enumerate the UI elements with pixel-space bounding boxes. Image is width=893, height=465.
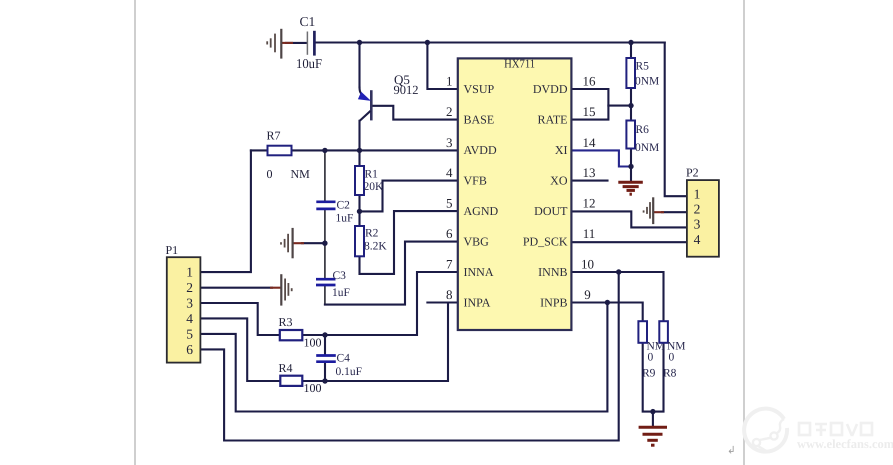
wire R1 top lead bbox=[358, 150, 360, 166]
svg-text:3: 3 bbox=[694, 217, 701, 232]
svg-text:11: 11 bbox=[583, 226, 596, 241]
svg-text:R5: R5 bbox=[636, 61, 650, 73]
svg-text:INPB: INPB bbox=[540, 295, 567, 309]
wire top-left ground to C1 bbox=[286, 42, 307, 44]
resistor R3 100 bbox=[279, 315, 322, 350]
svg-text:15: 15 bbox=[583, 104, 596, 119]
connector P2 bbox=[686, 166, 719, 257]
svg-text:5: 5 bbox=[446, 196, 453, 211]
svg-text:6: 6 bbox=[186, 342, 193, 357]
node junction R9-R8 bottom bbox=[650, 409, 655, 414]
svg-text:↲: ↲ bbox=[727, 446, 736, 457]
ground (sideways) at C1 bbox=[267, 29, 293, 59]
svg-text:4: 4 bbox=[446, 165, 453, 180]
svg-text:INNB: INNB bbox=[538, 265, 567, 279]
watermark url text bbox=[797, 437, 893, 451]
svg-text:1: 1 bbox=[186, 265, 193, 280]
svg-text:3: 3 bbox=[446, 135, 453, 150]
wire INNA pin 7 route down to R3 node bbox=[325, 272, 458, 335]
wire C2 riser from AVDD row to C2 top plate bbox=[324, 150, 326, 200]
svg-text:1uF: 1uF bbox=[332, 287, 350, 299]
wire XO pin13 stub bbox=[571, 180, 607, 182]
wire P1 pin2 to ground bbox=[201, 287, 272, 289]
wire C4 bottom lead bbox=[324, 363, 326, 381]
wire stem to bottom earth ground bbox=[652, 412, 654, 425]
wire XI pin14 route to R6 bottom node bbox=[571, 150, 631, 166]
connector P1 bbox=[166, 243, 201, 363]
svg-text:R1: R1 bbox=[365, 169, 379, 181]
svg-text:C2: C2 bbox=[337, 200, 351, 212]
capacitor C2 1uF bbox=[316, 200, 353, 225]
wire VCC top rail from C1 to right corner bbox=[315, 41, 665, 43]
svg-text:R3: R3 bbox=[279, 315, 293, 329]
node junction ground-C2-C3 bbox=[322, 241, 327, 246]
svg-text:AGND: AGND bbox=[464, 204, 499, 218]
transistor Q2 Q5 9012 bbox=[358, 72, 419, 121]
ground (earth) below R6 bbox=[618, 182, 643, 194]
svg-text:3: 3 bbox=[186, 296, 193, 311]
wire INPB rail from P1 pin5 to pin 9 drop bbox=[201, 303, 607, 412]
node junction INNB row bbox=[616, 269, 621, 274]
wire Q5 collector down to AVDD row bbox=[358, 121, 360, 151]
capacitor C4 0.1uF bbox=[316, 353, 362, 379]
wire PD_SCK pin11 to P2 pin4 bbox=[571, 241, 687, 243]
wire AGND pin 5 jog down to R2 bottom bbox=[360, 211, 458, 274]
svg-text:C1: C1 bbox=[300, 14, 316, 29]
wire C4 top lead bbox=[324, 335, 326, 354]
svg-text:C4: C4 bbox=[337, 353, 351, 365]
resistor R9 0 NM bbox=[638, 321, 665, 379]
node junction DVDD/RATE tap on R5-R6 bbox=[628, 103, 633, 108]
svg-text:DVDD: DVDD bbox=[533, 82, 568, 96]
svg-text:R9: R9 bbox=[642, 368, 656, 380]
wire R5 bottom to R6 top link bbox=[630, 88, 632, 121]
svg-text:R4: R4 bbox=[279, 361, 293, 375]
paragraph return mark bbox=[727, 446, 736, 457]
svg-text:100: 100 bbox=[304, 336, 322, 350]
svg-text:0: 0 bbox=[267, 167, 273, 181]
node junction XI on R6 bottom bbox=[628, 164, 633, 169]
svg-text:R2: R2 bbox=[365, 228, 379, 240]
left table border line bbox=[134, 0, 136, 465]
svg-text:0: 0 bbox=[648, 352, 654, 364]
svg-text:2: 2 bbox=[186, 280, 193, 295]
svg-text:100: 100 bbox=[304, 381, 322, 395]
wire INNB rail from P1 pin6 to pin 10 drop bbox=[201, 272, 619, 441]
svg-text:4: 4 bbox=[186, 311, 193, 326]
node junction rail-VSUP bbox=[425, 40, 430, 45]
node junction R3-C4-INNA bbox=[322, 332, 327, 337]
svg-text:P2: P2 bbox=[686, 166, 699, 180]
svg-text:AVDD: AVDD bbox=[464, 143, 497, 157]
wire Q5 base to pin 2 bbox=[372, 106, 458, 120]
svg-text:1: 1 bbox=[694, 186, 701, 201]
node junction rail-R5 bbox=[628, 40, 633, 45]
right table border line bbox=[743, 0, 745, 465]
node junction rail-emitter bbox=[357, 40, 362, 45]
wire VCC rail corner down to P2 pin1 bbox=[665, 43, 687, 197]
svg-text:XO: XO bbox=[550, 173, 568, 187]
ground (sideways) at P1 pin2 bbox=[270, 274, 292, 305]
svg-text:2: 2 bbox=[694, 202, 701, 217]
ground (earth) below R9 R8 bbox=[639, 427, 667, 445]
wire C3 bottom down to VBG return bbox=[324, 286, 326, 305]
wire DOUT pin12 route to P2 pin3 bbox=[571, 211, 687, 227]
resistor R8 0 NM bbox=[659, 321, 685, 379]
svg-text:DOUT: DOUT bbox=[534, 204, 568, 218]
node junction INPB row bbox=[605, 300, 610, 305]
svg-text:www.elecfans.com: www.elecfans.com bbox=[797, 437, 893, 451]
svg-text:16: 16 bbox=[583, 74, 597, 89]
node junction AVDD-collector-R1 bbox=[357, 148, 362, 153]
wire INPA route from R4 node up to pin 8 bbox=[325, 303, 448, 382]
wire R4 right lead to node bbox=[302, 380, 325, 382]
wire R2 top lead bbox=[358, 211, 360, 226]
wire R5 top lead from rail bbox=[630, 43, 632, 59]
wire R3 left lead from P1 pin3 drop bbox=[201, 303, 280, 335]
svg-text:20K: 20K bbox=[364, 181, 385, 193]
resistor R2 8.2K bbox=[355, 226, 387, 256]
watermark logo circle bbox=[744, 409, 787, 452]
wire VFB link from node up to pin 4 bbox=[360, 181, 458, 212]
svg-text:9012: 9012 bbox=[394, 83, 419, 97]
svg-text:INNA: INNA bbox=[464, 265, 494, 279]
svg-text:BASE: BASE bbox=[464, 112, 495, 126]
resistor R1 20K bbox=[355, 166, 384, 195]
svg-text:VSUP: VSUP bbox=[464, 82, 495, 96]
wire INPB pin 9 row to R9 top bbox=[571, 303, 642, 322]
wire AVDD row from R7 corner to pin 3 bbox=[251, 149, 458, 151]
resistor R5 0NM bbox=[626, 58, 659, 88]
svg-text:0: 0 bbox=[669, 352, 675, 364]
svg-text:VBG: VBG bbox=[464, 234, 490, 248]
pin names right side bbox=[523, 82, 568, 309]
wire R1 bottom lead to node bbox=[358, 195, 360, 211]
ground (sideways) at P2 pin2 bbox=[644, 197, 664, 224]
svg-text:12: 12 bbox=[583, 196, 596, 211]
svg-text:7: 7 bbox=[446, 257, 453, 272]
wire INNB pin 10 row to R8 top bbox=[571, 272, 663, 321]
wire pin 8 stub bbox=[427, 301, 457, 303]
pin numbers right 16-9 bbox=[581, 74, 596, 303]
wire VBG pin 6 route down and left to C3 bottom bbox=[325, 242, 458, 305]
wire R3 right lead to node bbox=[302, 334, 325, 336]
svg-text:6: 6 bbox=[446, 226, 453, 241]
wire VSUP drop from rail to pin 1 bbox=[427, 43, 457, 90]
svg-text:9: 9 bbox=[584, 287, 591, 302]
svg-text:VFB: VFB bbox=[464, 173, 487, 187]
wire DVDD pin16 jog to RATE pin15 bbox=[571, 89, 608, 120]
svg-text:R8: R8 bbox=[663, 368, 677, 380]
wire R4 left lead from P1 pin4 drop bbox=[201, 318, 280, 381]
wire P1 pin1 riser to R7 row bbox=[201, 150, 251, 272]
capacitor C3 1uF bbox=[316, 270, 350, 299]
svg-text:10: 10 bbox=[581, 257, 594, 272]
watermark chinese characters bbox=[799, 423, 872, 436]
svg-text:P1: P1 bbox=[166, 243, 179, 257]
svg-text:1uF: 1uF bbox=[336, 213, 354, 225]
svg-text:2: 2 bbox=[446, 104, 453, 119]
svg-text:XI: XI bbox=[555, 143, 568, 157]
svg-text:14: 14 bbox=[583, 135, 597, 150]
svg-text:C3: C3 bbox=[333, 270, 347, 282]
svg-text:R6: R6 bbox=[636, 124, 650, 136]
svg-text:RATE: RATE bbox=[538, 112, 568, 126]
svg-text:INPA: INPA bbox=[464, 295, 491, 309]
wire R6 bottom lead to ground bbox=[630, 149, 632, 181]
svg-text:0NM: 0NM bbox=[635, 76, 659, 88]
node junction R4-C4-INPA bbox=[322, 378, 327, 383]
wire ground stem to C2/C3 node bbox=[302, 242, 325, 244]
svg-text:5: 5 bbox=[186, 327, 193, 342]
pin numbers left 1-8 bbox=[446, 74, 453, 303]
svg-text:8: 8 bbox=[446, 287, 453, 302]
svg-text:1: 1 bbox=[446, 74, 453, 89]
ground (sideways) at C2/C3 node bbox=[281, 228, 304, 258]
svg-text:PD_SCK: PD_SCK bbox=[523, 234, 568, 248]
svg-text:13: 13 bbox=[583, 165, 596, 180]
wire Q5 emitter drop from rail bbox=[358, 43, 360, 88]
svg-text:0NM: 0NM bbox=[635, 142, 659, 154]
resistor R6 0NM bbox=[626, 121, 659, 155]
capacitor C1 10uF bbox=[296, 14, 322, 71]
op-amp U1 HX711 IC box bbox=[458, 56, 572, 330]
svg-text:HX711: HX711 bbox=[504, 56, 535, 70]
wire R9 R8 bottom tie bbox=[643, 343, 664, 412]
node junction AVDD-C2 bbox=[322, 148, 327, 153]
pin names left side bbox=[464, 82, 499, 309]
svg-text:8.2K: 8.2K bbox=[364, 241, 387, 253]
wire C2 bottom to ground node to C3 top bbox=[324, 210, 326, 278]
svg-text:NM: NM bbox=[291, 167, 311, 181]
svg-text:4: 4 bbox=[694, 232, 701, 247]
wire tap to R5-R6 node bbox=[608, 105, 631, 107]
svg-text:0.1uF: 0.1uF bbox=[336, 366, 363, 378]
resistor R7 0 NM bbox=[267, 129, 311, 182]
node junction R1-R2-VFB bbox=[357, 209, 362, 214]
svg-text:R7: R7 bbox=[267, 129, 281, 143]
resistor R4 100 bbox=[279, 361, 322, 395]
svg-text:10uF: 10uF bbox=[296, 56, 322, 71]
wire P2 pin2 to ground bbox=[662, 211, 687, 213]
